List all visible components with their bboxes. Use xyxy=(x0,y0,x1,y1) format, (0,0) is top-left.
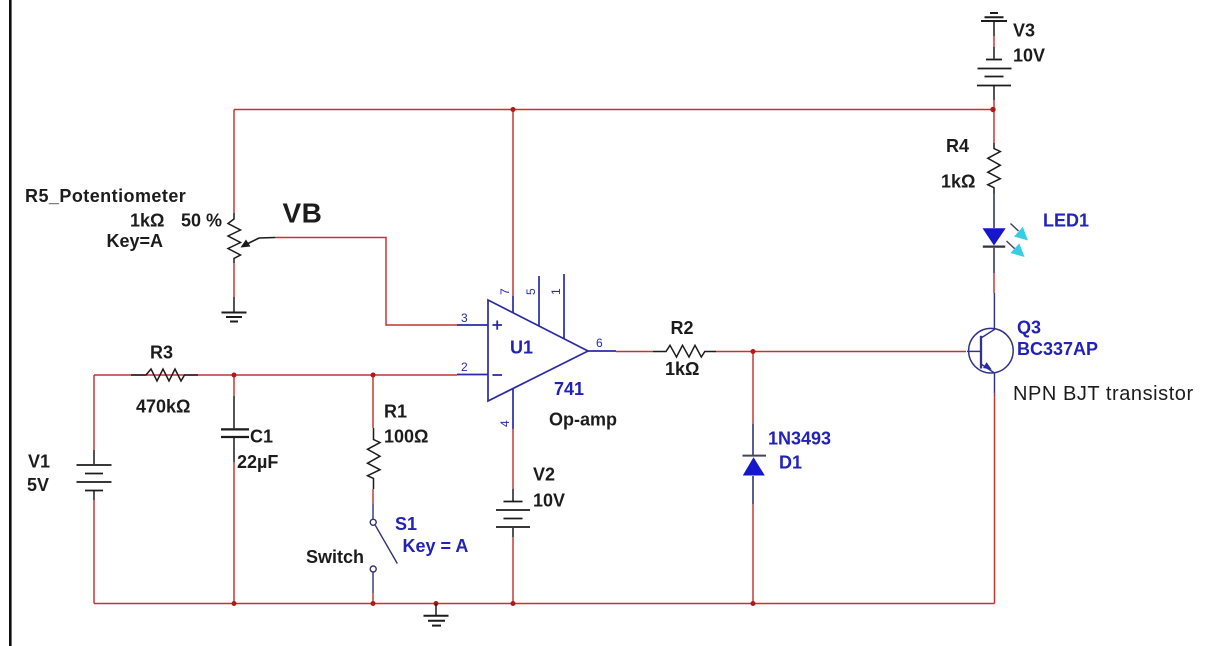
svg-text:2: 2 xyxy=(461,360,468,374)
svg-text:470kΩ: 470kΩ xyxy=(136,397,190,417)
svg-text:10V: 10V xyxy=(533,491,565,511)
svg-text:7: 7 xyxy=(498,288,512,295)
svg-text:1kΩ: 1kΩ xyxy=(665,359,699,379)
svg-text:1: 1 xyxy=(549,288,563,295)
svg-text:3: 3 xyxy=(461,311,468,325)
svg-text:R1: R1 xyxy=(384,402,407,422)
svg-text:Op-amp: Op-amp xyxy=(549,410,617,430)
svg-text:1kΩ: 1kΩ xyxy=(941,172,975,192)
svg-text:6: 6 xyxy=(596,336,603,350)
svg-text:100Ω: 100Ω xyxy=(384,427,428,447)
svg-text:4: 4 xyxy=(498,420,512,427)
svg-text:V1: V1 xyxy=(28,452,50,472)
svg-text:10V: 10V xyxy=(1013,46,1045,66)
svg-text:VB: VB xyxy=(283,198,323,229)
svg-text:R5_Potentiometer: R5_Potentiometer xyxy=(25,186,186,206)
svg-text:Key=A: Key=A xyxy=(107,231,164,251)
svg-text:U1: U1 xyxy=(510,338,533,358)
svg-text:V3: V3 xyxy=(1013,21,1035,41)
svg-text:NPN BJT transistor: NPN BJT transistor xyxy=(1013,383,1194,405)
svg-text:22µF: 22µF xyxy=(237,452,278,472)
svg-text:V2: V2 xyxy=(533,465,555,485)
svg-text:C1: C1 xyxy=(250,427,273,447)
svg-text:Switch: Switch xyxy=(306,547,364,567)
svg-text:741: 741 xyxy=(554,379,584,399)
svg-text:50 %: 50 % xyxy=(181,211,222,231)
svg-text:R3: R3 xyxy=(150,343,173,363)
svg-text:LED1: LED1 xyxy=(1043,211,1089,231)
svg-text:R2: R2 xyxy=(671,318,694,338)
svg-text:Key = A: Key = A xyxy=(403,536,469,556)
svg-text:5: 5 xyxy=(524,288,538,295)
svg-text:1kΩ: 1kΩ xyxy=(130,211,164,231)
svg-text:5V: 5V xyxy=(27,475,49,495)
svg-text:S1: S1 xyxy=(395,514,417,534)
svg-text:Q3: Q3 xyxy=(1017,318,1041,338)
svg-text:R4: R4 xyxy=(946,136,969,156)
svg-text:BC337AP: BC337AP xyxy=(1017,339,1098,359)
svg-text:1N3493: 1N3493 xyxy=(768,429,831,449)
svg-text:D1: D1 xyxy=(779,453,802,473)
